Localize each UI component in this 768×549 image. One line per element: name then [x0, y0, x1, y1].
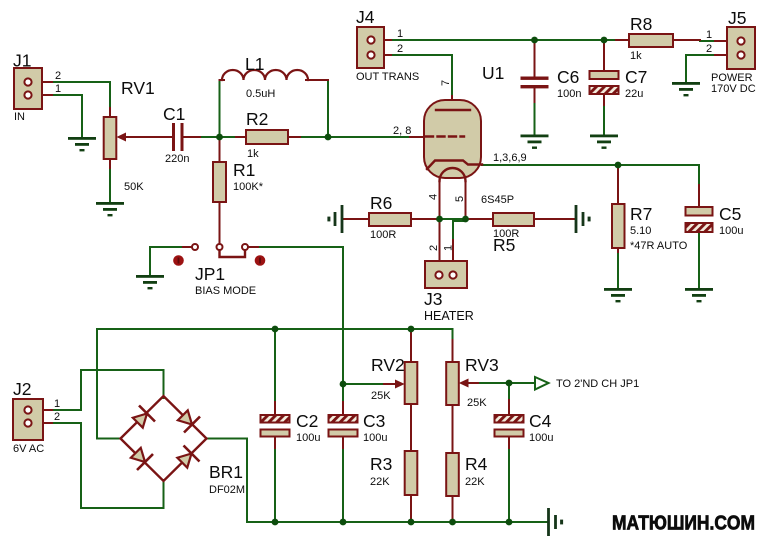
capacitor C2: [261, 415, 290, 437]
wire C4 column top: [508, 385, 510, 412]
junction cathode R7: [615, 162, 622, 169]
wire top rail: [97, 329, 453, 342]
svg-text:50K: 50K: [124, 181, 144, 193]
svg-text:100K*: 100K*: [233, 181, 264, 193]
junction heater pin 4: [436, 216, 443, 223]
wire C7 pin stubs: [603, 42, 605, 105]
svg-text:6V AC: 6V AC: [13, 443, 44, 455]
svg-text:22K: 22K: [370, 476, 390, 488]
wire J4 pin2 to U1 plate: [390, 55, 452, 98]
ground C6: [521, 135, 549, 149]
wire R8 to J5 pin1: [700, 40, 720, 42]
ground JP1: [136, 275, 164, 289]
wire R2 pin stubs: [236, 136, 300, 138]
junction bias node RV2 wiper: [340, 381, 347, 388]
svg-text:R5: R5: [493, 235, 515, 255]
wire RV1 pin stubs: [109, 108, 111, 168]
capacitor C3: [329, 415, 358, 437]
junction bottom rail R3: [408, 519, 415, 526]
junction heater pin 5: [462, 216, 469, 223]
svg-text:C4: C4: [529, 411, 552, 431]
resistor R5: [493, 213, 534, 226]
wire JP1 pin stubs: [183, 246, 258, 248]
resistor R6: [369, 213, 411, 226]
svg-text:RV3: RV3: [465, 355, 499, 375]
wire bottom rail: [247, 521, 547, 523]
svg-text:0.5uH: 0.5uH: [246, 88, 275, 100]
ground terminator bottom rail: [547, 508, 563, 536]
svg-text:DF02M: DF02M: [209, 484, 245, 496]
svg-text:170V DC: 170V DC: [711, 83, 756, 95]
resistor R1: [213, 162, 226, 202]
wire J5 pin stubs: [715, 41, 738, 55]
svg-text:2: 2: [55, 70, 61, 82]
capacitor C6: [521, 77, 549, 89]
svg-text:J1: J1: [13, 51, 31, 71]
wire J2 pin stubs: [31, 410, 52, 423]
svg-text:C1: C1: [163, 104, 185, 124]
wire RV1 wiper to C1: [150, 136, 169, 138]
capacitor C4: [495, 415, 524, 437]
svg-text:C2: C2: [296, 411, 318, 431]
svg-text:J3: J3: [424, 289, 442, 309]
wire RV2 to R3: [410, 404, 412, 451]
svg-text:C5: C5: [719, 204, 741, 224]
svg-text:R2: R2: [246, 109, 268, 129]
svg-text:TO 2'ND CH JP1: TO 2'ND CH JP1: [556, 378, 639, 390]
svg-text:100u: 100u: [296, 432, 320, 444]
junction HT rail C7: [601, 37, 608, 44]
wire L1 right down to node B: [308, 80, 328, 137]
wire J3 pin1 jog: [453, 219, 466, 240]
wire R7 to ground: [617, 250, 619, 288]
svg-text:C6: C6: [557, 67, 579, 87]
wire L1 pin stubs: [220, 79, 329, 81]
wire JP1 left pin to ground: [150, 247, 182, 275]
svg-text:R1: R1: [233, 160, 255, 180]
ground J1: [68, 137, 96, 151]
svg-text:1: 1: [397, 28, 403, 40]
wire R3 to bottom rail: [410, 497, 412, 522]
connector J3: [425, 261, 467, 288]
wire U1 plate pin: [451, 96, 453, 110]
wire C4 pin stubs: [508, 400, 510, 448]
wire J3 pin2: [439, 221, 441, 271]
potentiometer RV1 wiper arrowhead: [117, 133, 127, 142]
wire node A to R2: [222, 136, 246, 138]
junction bottom rail C3: [340, 519, 347, 526]
wire C2 pin stubs: [274, 402, 276, 448]
svg-text:2: 2: [428, 245, 440, 251]
wire R5 pin stubs: [468, 218, 574, 220]
bridge rectifier BR1: [121, 396, 207, 481]
connector J1: [14, 68, 42, 109]
wire RV1 bottom to ground: [109, 166, 111, 202]
connector J2: [13, 399, 43, 440]
svg-text:100u: 100u: [719, 225, 743, 237]
wire C1 to node A: [186, 136, 220, 138]
svg-text:1k: 1k: [630, 50, 642, 62]
wire C5 top pin: [698, 185, 700, 207]
vacuum tube U1: [424, 100, 482, 181]
wire RV1 wiper arrow line: [124, 136, 152, 138]
potentiometer RV3: [446, 362, 459, 405]
svg-text:BIAS MODE: BIAS MODE: [195, 285, 256, 297]
wire J1 pin2 to RV1 top: [50, 82, 110, 110]
wires: green nets: [50, 40, 722, 522]
wire C2 column top: [274, 329, 276, 412]
svg-text:1: 1: [443, 245, 455, 251]
svg-text:25K: 25K: [371, 390, 391, 402]
wire R2 right to node B: [288, 136, 328, 138]
wire J3 pin1 stub: [452, 240, 454, 271]
wire RV2 wiper arrow line: [384, 383, 398, 385]
svg-text:OUT TRANS: OUT TRANS: [356, 71, 419, 83]
svg-text:25K: 25K: [467, 397, 487, 409]
wire C2 column bottom: [274, 439, 276, 522]
svg-text:100R: 100R: [370, 229, 396, 241]
arrow to second channel: [535, 377, 549, 390]
wire JP1 link: [220, 250, 246, 257]
wire C6 pin stubs: [534, 42, 536, 102]
svg-text:C3: C3: [363, 411, 385, 431]
svg-text:R3: R3: [370, 454, 392, 474]
wire C3 pin stubs: [342, 402, 344, 448]
potentiometer RV1: [104, 117, 117, 159]
ground RV1: [96, 202, 124, 216]
wire JP1 right pin down to bias node: [257, 247, 343, 415]
svg-text:7: 7: [440, 80, 452, 86]
svg-text:2, 8: 2, 8: [393, 125, 411, 137]
wire BR1 right to bottom rail: [207, 439, 247, 523]
node A junction: [216, 134, 223, 141]
svg-text:5: 5: [454, 196, 466, 202]
svg-text:4: 4: [428, 194, 440, 200]
resistor R2: [246, 130, 288, 144]
capacitor C1: [172, 123, 184, 151]
svg-text:RV1: RV1: [121, 78, 155, 98]
svg-text:C7: C7: [625, 67, 647, 87]
svg-text:J4: J4: [356, 7, 375, 27]
junction top rail RV2: [408, 326, 415, 333]
svg-text:22u: 22u: [625, 88, 643, 100]
wire heater rail between pins 4 and 5: [440, 218, 465, 220]
svg-text:IN: IN: [14, 111, 25, 123]
wire C7 to ground: [603, 94, 605, 135]
svg-text:R7: R7: [630, 204, 652, 224]
wire RV2 wiper from bias node: [343, 383, 386, 385]
wire RV3 to R4: [452, 405, 454, 453]
wire node A up to L1 left: [220, 80, 224, 134]
wire R8 pin stubs: [616, 40, 738, 41]
wire C4 node to 2nd channel arrow: [509, 382, 534, 384]
potentiometer RV2: [405, 362, 418, 404]
svg-text:1: 1: [706, 29, 712, 41]
ground J5: [672, 82, 700, 96]
svg-text:22K: 22K: [465, 476, 485, 488]
capacitor C7: [590, 71, 619, 94]
svg-text:100u: 100u: [529, 432, 553, 444]
svg-text:6S45P: 6S45P: [481, 194, 514, 206]
svg-text:100u: 100u: [363, 432, 387, 444]
svg-text:1k: 1k: [247, 148, 259, 160]
resistor R3: [405, 451, 418, 495]
svg-text:BR1: BR1: [209, 462, 243, 482]
svg-text:2: 2: [397, 43, 403, 55]
jumper JP1: [173, 244, 265, 266]
junction HT rail C6: [531, 37, 538, 44]
resistor R8: [629, 34, 673, 47]
wire R6 pin stubs: [344, 218, 437, 220]
wire R7 pins: [617, 167, 619, 252]
svg-text:1: 1: [54, 398, 60, 410]
wire J4 pin stubs: [374, 40, 391, 55]
wire J1 pin stubs: [31, 82, 52, 95]
svg-text:220n: 220n: [165, 153, 189, 165]
wire RV3 wiper to C4 node: [474, 382, 509, 384]
wire J2 pin1 to BR1 top: [50, 370, 164, 410]
junction bottom rail C2: [272, 519, 279, 526]
svg-text:МАТЮШИН.COM: МАТЮШИН.COM: [612, 513, 755, 535]
wire J5 pin2 to ground: [686, 55, 722, 82]
wire J4 pin1 to R8: [390, 39, 618, 41]
wire U1 cathode pins 4 and 5: [440, 178, 466, 217]
junction top rail C2: [272, 326, 279, 333]
ground R7: [604, 288, 632, 302]
connector J4: [357, 27, 384, 68]
capacitor C5: [686, 207, 713, 232]
svg-text:100n: 100n: [557, 88, 581, 100]
resistor R4: [446, 453, 459, 496]
wire J2 pin2 to BR1 bottom: [50, 423, 164, 508]
potentiometer RV3 wiper arrowhead: [459, 379, 469, 388]
wire RV3 top pin: [452, 340, 454, 362]
ground terminator right of R5: [575, 205, 591, 233]
wire J1 pin1 to ground: [50, 95, 82, 137]
resistor R7: [612, 204, 625, 248]
svg-text:2: 2: [54, 411, 60, 423]
svg-text:RV2: RV2: [371, 355, 405, 375]
wire RV2 top pin from rail node: [410, 329, 412, 362]
svg-text:JP1: JP1: [195, 264, 225, 284]
junction bottom rail R4: [449, 519, 456, 526]
wire node A to R1 pin: [219, 137, 221, 162]
svg-text:HEATER: HEATER: [424, 309, 474, 323]
svg-text:R4: R4: [465, 454, 488, 474]
wire C1 pin stubs: [125, 136, 200, 138]
svg-text:J5: J5: [728, 8, 746, 28]
ground terminator left of R6: [327, 205, 343, 233]
junction C4 RV3 wiper: [506, 380, 513, 387]
svg-text:R8: R8: [630, 14, 652, 34]
wire R4 bottom pin: [452, 496, 454, 519]
wire C3 column bottom: [342, 439, 344, 522]
ground C5: [685, 288, 713, 302]
inductor L1: [222, 70, 308, 80]
junction bottom rail C4: [506, 519, 513, 526]
wire C6 to ground: [534, 90, 536, 135]
wire BR1 left to top rail: [97, 329, 120, 439]
wire C5 to ground: [698, 233, 700, 288]
node B junction: [325, 134, 332, 141]
svg-text:2: 2: [706, 43, 712, 55]
wire node B to U1 grid: [330, 136, 412, 138]
connector J5: [727, 27, 755, 69]
wire R3 bottom pin: [410, 495, 412, 519]
potentiometer RV2 wiper arrowhead: [395, 380, 405, 389]
svg-text:1: 1: [55, 83, 61, 95]
ground C7: [590, 135, 618, 149]
svg-text:L1: L1: [245, 54, 264, 74]
svg-text:5.10: 5.10: [630, 225, 651, 237]
svg-text:*47R AUTO: *47R AUTO: [630, 240, 688, 252]
svg-text:1,3,6,9: 1,3,6,9: [493, 152, 527, 164]
svg-text:J2: J2: [13, 379, 31, 399]
svg-text:R6: R6: [370, 193, 392, 213]
wire RV3 wiper arrow line: [464, 382, 478, 384]
wire R1 to JP1 pin: [219, 202, 221, 244]
wire U1 cathode to C5: [482, 165, 699, 207]
wire C4 column bottom: [508, 439, 510, 522]
wire R4 to bottom rail: [452, 498, 454, 522]
svg-text:U1: U1: [482, 63, 504, 83]
wire U1 grid pin: [410, 136, 425, 138]
